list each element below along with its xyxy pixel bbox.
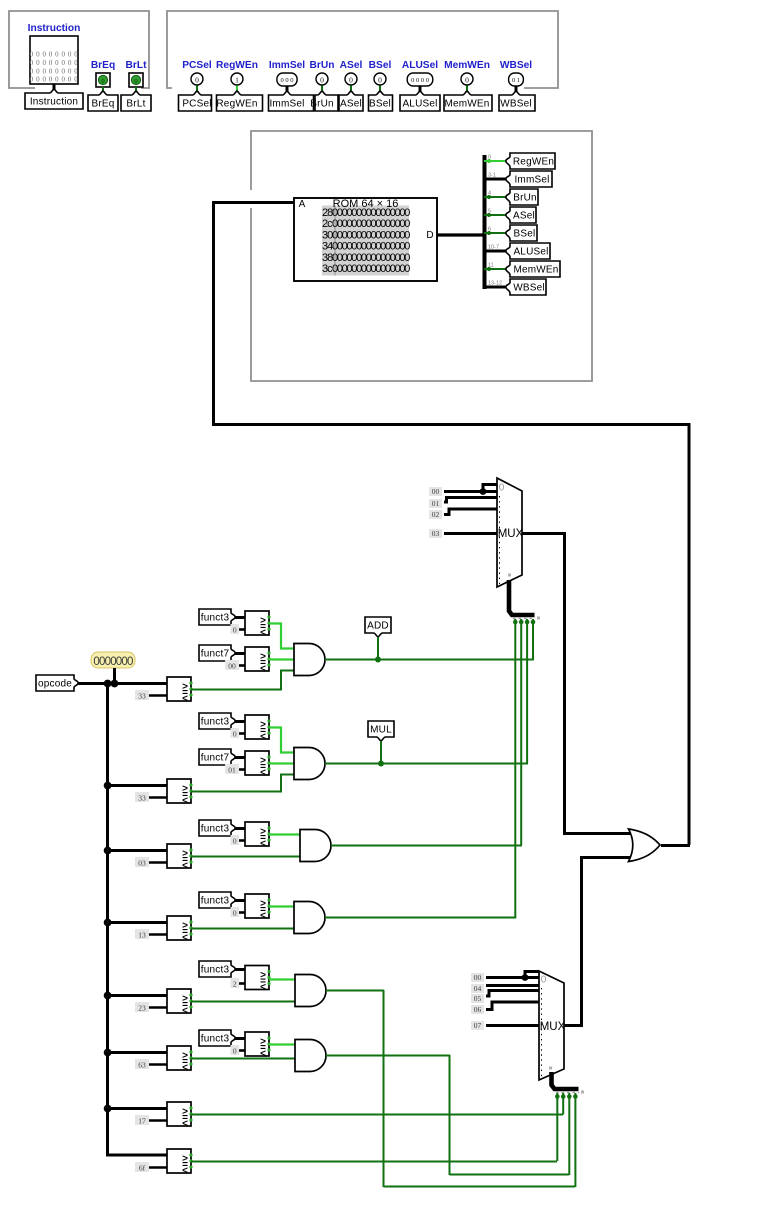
junction [375,657,381,663]
svg-text:MemWEn: MemWEn [444,99,489,110]
output RegWEn [231,73,243,85]
tunnel MUL tag [368,721,394,741]
junction [104,782,112,790]
AND gate A5 [295,975,326,1007]
const 07 (M2 in) [471,1021,484,1030]
svg-text:13: 13 [138,930,146,939]
svg-text:00: 00 [228,661,236,670]
tunnel ImmSel [506,171,552,187]
svg-text:1: 1 [235,75,239,84]
input Instruction (32-bit) [30,36,78,84]
svg-text:<: < [260,839,266,850]
wire [235,899,245,902]
const 0 [238,839,245,842]
svg-text:23: 23 [138,1003,146,1012]
svg-text:MUL: MUL [370,725,392,736]
wire [484,178,508,181]
svg-text:WBSel: WBSel [513,283,545,294]
junction [104,919,112,927]
svg-text:MUX: MUX [498,528,524,540]
tunnel BrUn [315,91,338,111]
svg-text:BrLt: BrLt [126,60,148,71]
svg-text:<: < [182,796,188,807]
junction [104,992,112,1000]
const 00 [238,664,245,667]
tunnel BSel [506,225,537,241]
svg-text:0000000000000000: 0000000000000000 [332,207,410,219]
svg-text:MemWEn: MemWEn [513,265,558,276]
svg-text:WBSel: WBSel [500,99,532,110]
comparator C5 funct7==01 [245,751,269,775]
wire [107,784,167,787]
svg-text:ImmSel: ImmSel [269,60,305,71]
svg-text:funct3: funct3 [201,717,230,728]
svg-text:07: 07 [474,1021,482,1030]
junction [111,680,119,688]
svg-text:00: 00 [432,487,440,496]
const 23 [148,1006,167,1009]
tunnel Instruction [25,89,83,109]
const 63 [148,1063,167,1066]
svg-text:<: < [182,1006,188,1017]
svg-text:<: < [260,628,266,639]
svg-text:04: 04 [474,984,482,993]
wire [107,1051,167,1054]
wire [486,1002,539,1010]
frame: control signals subcircuit border [167,11,558,88]
wire [580,857,583,1027]
svg-text:funct3: funct3 [201,824,230,835]
tunnel funct3 (row2) [199,713,235,729]
const 03 [148,861,167,864]
wire [484,196,508,198]
svg-text:02: 02 [432,510,440,519]
svg-text:BrUn: BrUn [513,193,537,204]
wire [532,619,534,659]
wire [514,619,516,917]
svg-text:BrEq: BrEq [91,60,115,71]
svg-text:funct3: funct3 [201,1034,230,1045]
junction [378,761,384,767]
junction [104,1049,112,1057]
comparator C14 opcode==63 [167,1046,191,1070]
svg-text:<: < [182,933,188,944]
const 0 [238,911,245,914]
wire [484,232,508,234]
MUX M1 [497,478,522,587]
wire [235,756,245,759]
svg-text:funct3: funct3 [201,896,230,907]
svg-text:0 0 0 0: 0 0 0 0 [411,77,429,84]
wire [486,1024,539,1027]
wire [235,827,245,830]
wire [563,532,566,833]
tunnel funct3 (row6) [199,1030,235,1046]
wire [321,86,323,96]
AND gate A4 [294,902,325,934]
wire [78,682,167,685]
comparator C11 funct3==2 [245,966,269,990]
comparator C8 opcode==03 [167,844,191,868]
tunnel funct3 (row1) [199,609,235,625]
wire [515,86,518,96]
svg-text:0000000000000000: 0000000000000000 [332,252,410,264]
svg-text:BSel: BSel [514,229,536,240]
comparator C15 opcode==17 [167,1102,191,1126]
wire [191,1001,297,1003]
svg-text:BrUn: BrUn [310,99,334,110]
svg-text:0: 0 [499,483,505,494]
svg-text:<: < [182,1063,188,1074]
wire [325,917,516,919]
comparator C16 opcode==6f [167,1149,191,1173]
tunnel WBSel [499,91,535,111]
splitter select M2 bit ticks [556,1092,579,1094]
ROM U1 (64x16) [294,198,437,281]
tunnel ALUSel [400,91,440,111]
wire [486,984,539,987]
wire [235,1037,245,1040]
tunnel BrEq [88,91,118,111]
tunnel BrUn [506,189,538,205]
svg-text:06: 06 [474,1005,482,1014]
wire [377,637,379,659]
wire [196,86,198,96]
comparator C4 funct3==0 [245,715,269,739]
wire [384,1186,576,1188]
svg-text:0000000000000000: 0000000000000000 [332,263,410,275]
svg-text:BSel: BSel [369,99,391,110]
const 0 [238,628,245,631]
svg-text:0: 0 [541,975,547,986]
comparator C13 funct3==0 [245,1032,269,1056]
output BSel [374,73,386,85]
wire [484,214,508,216]
wire [53,84,56,93]
const 00 (M1 in0/1) [429,487,442,496]
tunnel ASel [339,91,363,111]
svg-text:ALUSel: ALUSel [402,99,437,110]
wire [520,619,522,845]
wire [556,1093,558,1161]
svg-text:funct3: funct3 [201,965,230,976]
tunnel funct3 (row3) [199,820,235,836]
output ALUSel [407,73,433,86]
svg-text:PCSel: PCSel [182,99,211,110]
svg-text:0000000000000000: 0000000000000000 [332,241,410,253]
wire [269,978,298,980]
svg-text:ASel: ASel [513,211,535,222]
svg-text:0: 0 [195,75,199,84]
comparator C9 funct3==0 [245,894,269,918]
svg-text:PCSel: PCSel [182,60,212,71]
wire [444,532,497,535]
wire [552,1072,579,1089]
wire [688,423,691,845]
wire [350,86,352,96]
svg-text:0000000000000000: 0000000000000000 [332,218,410,230]
svg-text:ALUSel: ALUSel [402,60,438,71]
const 00 (M2 in0/1) [471,973,484,982]
wire [326,1055,450,1057]
svg-text:<: < [260,664,266,675]
svg-text:<: < [182,1166,188,1177]
wire [236,86,238,96]
splitter select M1 bit ticks [513,618,535,620]
comparator C1 funct3==0 [245,611,269,635]
MUX M2 [539,971,564,1080]
wire [525,972,539,978]
wire [135,87,137,95]
tunnel PCSel [179,91,212,111]
wire [212,423,691,426]
wire [212,201,294,204]
wire [484,286,508,289]
svg-text:0 0 0 0 0 0 0 0: 0 0 0 0 0 0 0 0 [30,59,79,67]
svg-text:BrUn: BrUn [310,60,335,71]
svg-text:00: 00 [474,973,482,982]
svg-text:01: 01 [228,765,236,774]
svg-text:33: 33 [138,691,146,700]
wire [563,832,634,835]
const 17 [148,1119,167,1122]
svg-text:funct7: funct7 [201,753,230,764]
svg-text:0: 0 [134,78,137,85]
svg-text:03: 03 [432,529,440,538]
wire [191,775,296,792]
svg-text:0 0 0 0 0 0 0 0: 0 0 0 0 0 0 0 0 [30,51,79,59]
tunnel opcode [36,675,78,691]
wire [191,856,302,858]
const 02 (M1 in4) [429,510,442,519]
svg-text:0: 0 [233,908,237,917]
wire [444,490,497,493]
AND gate A2 [294,748,325,780]
const 0 [238,732,245,735]
junction [522,974,529,981]
svg-text:0: 0 [101,78,104,85]
wire [325,763,528,765]
svg-text:ADD: ADD [367,621,389,632]
wire [212,202,215,426]
wire [102,87,104,95]
junction [480,488,487,495]
const 0 [238,1049,245,1052]
svg-text:<: < [182,861,188,872]
wire [107,994,167,997]
svg-text:ImmSel: ImmSel [514,175,549,186]
wire [466,86,468,96]
const 13 [148,933,167,936]
tunnel ALUSel [506,243,550,259]
comparator C12 opcode==23 [167,989,191,1013]
wire [269,762,296,764]
wire [331,845,522,847]
svg-text:6f: 6f [139,1163,146,1172]
svg-text:0: 0 [233,836,237,845]
wire [661,844,690,847]
wire [269,905,296,907]
tunnel MemWEn [444,91,492,111]
svg-text:0: 0 [349,75,353,84]
comparator C6 opcode==33 [167,779,191,803]
wire [269,833,302,835]
svg-text:BSel: BSel [369,60,392,71]
svg-text:ALUSel: ALUSel [513,247,548,258]
svg-text:D: D [426,230,433,241]
wire [269,658,296,660]
svg-text:0: 0 [233,729,237,738]
wire [486,991,539,997]
wire [235,968,245,971]
wire [380,741,382,763]
wire [484,160,508,162]
output ASel [345,73,357,85]
wire [562,1093,564,1115]
svg-text:05: 05 [474,994,482,1003]
tunnel WBSel [506,279,546,295]
const 05 (M2 in) [471,994,484,1003]
svg-text:0: 0 [233,625,237,634]
svg-text:A: A [299,199,306,210]
svg-text:MUX: MUX [540,1021,566,1033]
svg-text:<: < [260,732,266,743]
svg-text:0: 0 [378,75,382,84]
wire [107,921,167,924]
wire [269,1043,297,1045]
wire [486,976,539,979]
tunnel funct3 (row5) [199,961,235,977]
const 33 [148,694,167,697]
svg-text:RegWEn: RegWEn [216,60,258,71]
svg-text:<: < [260,982,266,993]
AND gate A3 [300,830,331,862]
tunnel MemWEn [506,261,560,277]
wire [522,532,566,535]
OR gate O1 [629,829,661,862]
wire [419,86,422,96]
svg-text:0 0 0: 0 0 0 [281,77,294,84]
wire [106,683,109,1157]
svg-text:opcode: opcode [38,679,72,690]
svg-text:0: 0 [233,1046,237,1055]
svg-text:<: < [260,768,266,779]
comparator C3 opcode==33 [167,677,191,701]
svg-text:ASel: ASel [340,99,362,110]
junction [104,1105,112,1113]
svg-text:2: 2 [233,979,237,988]
wire [564,1024,583,1027]
comparator C7 funct3==0 [245,822,269,846]
wire [235,616,245,619]
wire [107,1107,167,1110]
tunnel ImmSel [269,91,314,111]
tunnel ADD tag [365,617,391,637]
wire [580,856,634,859]
svg-text:funct7: funct7 [201,649,230,660]
svg-text:WBSel: WBSel [500,60,532,71]
junction [104,680,112,688]
wire [568,1093,570,1175]
wire [379,86,381,96]
output PCSel [191,73,203,85]
svg-text:0 0 0 0 0 0 0 0: 0 0 0 0 0 0 0 0 [30,67,79,75]
svg-text:Instruction: Instruction [30,97,78,108]
svg-text:MemWEn: MemWEn [444,60,490,71]
svg-text:0000000: 0000000 [93,656,133,668]
wire [235,652,245,655]
svg-text:funct3: funct3 [201,613,230,624]
wire [483,485,497,492]
tunnel BrLt [121,91,151,111]
tunnel RegWEn [217,91,263,111]
wire [191,928,296,930]
output BrLt [129,73,143,87]
wire [444,498,497,503]
output MemWEn [461,73,473,85]
output WBSel [509,73,524,86]
wire [191,1058,298,1060]
wire [106,1154,167,1157]
svg-text:0 1: 0 1 [512,77,520,84]
svg-text:BrLt: BrLt [126,99,145,110]
wire [383,990,385,1187]
const 2 [238,982,245,985]
tunnel funct7 (row2) [199,749,235,765]
const 06 (M2 in) [471,1005,484,1014]
output BrUn [316,73,328,85]
AND gate A1 [294,644,325,676]
wire [286,86,289,96]
wire [191,1114,563,1116]
svg-text:17: 17 [138,1116,146,1125]
svg-text:03: 03 [138,858,146,867]
wire [235,720,245,723]
svg-text:RegWEn: RegWEn [216,99,257,110]
junction [104,847,112,855]
wire [437,233,483,236]
wire [509,580,535,615]
tunnel BSel [369,91,393,111]
const 6f [148,1166,167,1169]
tunnel ASel [506,207,536,223]
svg-text:0: 0 [320,75,324,84]
tunnel funct3 (row4) [199,892,235,908]
svg-text:<: < [260,911,266,922]
wire [574,1093,576,1187]
svg-text:Instruction: Instruction [28,23,81,34]
wire [326,990,384,992]
wire [191,671,296,690]
wire [107,849,167,852]
tunnel funct7 (row1) [199,645,235,661]
svg-text:0 0 0 0 0 0 0 0: 0 0 0 0 0 0 0 0 [30,76,79,84]
svg-text:ASel: ASel [340,60,363,71]
wire [450,1174,570,1176]
svg-text:<: < [182,1119,188,1130]
wire [449,1055,451,1175]
wire [191,1161,557,1163]
frame: ROM subcircuit border [251,131,592,381]
svg-text:0: 0 [465,75,469,84]
output BrEq [96,73,110,87]
const 03 (M1 in9) [429,529,442,538]
const 33 [148,796,167,799]
output ImmSel [277,73,297,86]
const 01 [238,768,245,771]
svg-text:RegWEn: RegWEn [513,157,554,168]
wire [484,250,508,253]
